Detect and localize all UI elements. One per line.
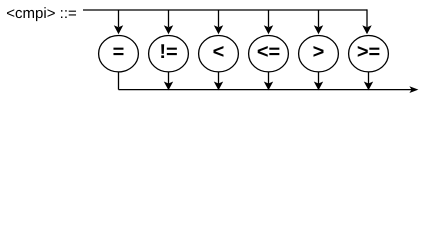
arrowhead node 5 to bottom line — [314, 82, 323, 91]
wire: drop into node 2 — [168, 10, 170, 27]
wire: node 1 bottom corner to bottom line — [118, 72, 120, 90]
wire: corner drop into node 6 — [366, 9, 368, 27]
svg-text:=: = — [113, 41, 125, 63]
svg-text:!=: != — [159, 41, 177, 63]
svg-text:>=: >= — [357, 41, 380, 63]
arrowhead node 6 to bottom line — [364, 82, 373, 91]
node 3 terminal < — [199, 36, 239, 72]
svg-text:>: > — [313, 41, 325, 63]
wire: node 4 bottom drop — [268, 72, 270, 84]
wire: drop into node 3 — [218, 10, 220, 27]
wire: drop into node 4 — [268, 10, 270, 27]
arrowhead into node 3 top — [214, 25, 223, 34]
wire: drop into node 5 — [318, 10, 320, 27]
arrowhead into node 1 top — [114, 25, 123, 34]
node 2 terminal != — [149, 36, 189, 72]
svg-text:<=: <= — [257, 41, 280, 63]
wire: drop into node 1 — [118, 10, 120, 27]
arrowhead node 2 to bottom line — [164, 82, 173, 91]
wire: bottom horizontal line — [119, 89, 412, 91]
node 6 terminal >= — [349, 36, 389, 72]
arrowhead into node 5 top — [314, 25, 323, 34]
svg-text:<: < — [213, 41, 225, 63]
wire: node 6 bottom drop — [368, 72, 370, 84]
node 1 terminal = — [99, 36, 139, 72]
wire: node 2 bottom drop — [168, 72, 170, 84]
arrowhead at end of bottom line — [409, 86, 418, 93]
wire: node 3 bottom drop — [218, 72, 220, 84]
node 5 terminal > — [299, 36, 339, 72]
wire: top horizontal line — [83, 9, 367, 11]
arrowhead into node 2 top — [164, 25, 173, 34]
wire: node 5 bottom drop — [318, 72, 320, 84]
arrowhead node 3 to bottom line — [214, 82, 223, 91]
arrowhead into node 6 top — [362, 25, 371, 34]
node 4 terminal <= — [249, 36, 289, 72]
svg-text:<cmpi> ::=: <cmpi> ::= — [6, 5, 77, 22]
arrowhead into node 4 top — [264, 25, 273, 34]
arrowhead node 4 to bottom line — [264, 82, 273, 91]
